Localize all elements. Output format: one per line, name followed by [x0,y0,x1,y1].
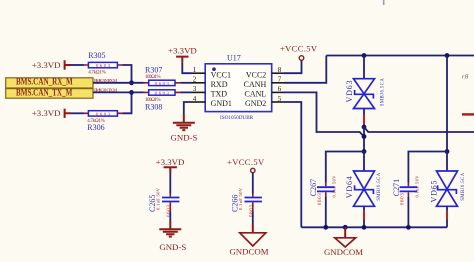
wire C267 branch [326,152,364,183]
svg-text:TXD: TXD [211,90,228,99]
wire R307 to pin2 [180,82,191,84]
wire red below VD64 [363,211,365,220]
svg-text:3: 3 [193,85,197,93]
svg-text:2: 2 [193,76,197,84]
svg-text:VD64: VD64 [345,176,354,198]
svg-text:+3.3VD: +3.3VD [32,60,61,70]
wire TX [93,91,144,93]
svg-text:GND1: GND1 [211,99,232,108]
junction bus/right branch [445,53,450,58]
svg-text:R306: R306 [87,123,104,132]
wire C271 branch [408,152,447,183]
wire GND2: pin5 down to rail [284,102,301,227]
svg-text:0.1uF 50V: 0.1uF 50V [332,175,337,198]
wire CANL to right edge [364,127,474,132]
power +VCC.5V (C266) [227,157,265,173]
capacitor C271 [392,175,420,205]
svg-text:+3.3VD: +3.3VD [168,45,197,55]
junction C271/rail [406,225,411,230]
junction VD63 bottom [362,125,367,130]
wire VD64 to rail [363,220,365,228]
svg-text:R307: R307 [145,66,162,75]
port BMS.CAN_TX_M [6,88,93,98]
svg-text:6: 6 [278,85,282,93]
svg-text:4.7kΩ1%: 4.7kΩ1% [87,119,105,124]
wire C271 to rail [407,197,409,227]
svg-text:VCC1: VCC1 [211,70,231,79]
svg-text:BMS.CAN_TX_M: BMS.CAN_TX_M [16,88,73,98]
wire R305 to RX node [123,65,132,83]
pin 5 GND2 [272,101,284,103]
wire R308 to pin3 [180,91,191,93]
resistor R307 [144,66,181,86]
pin 8 VCC2 [272,72,284,74]
wire +3.3VD to pin1 [182,63,191,73]
svg-text:SMBJ6.5CA: SMBJ6.5CA [461,172,466,201]
wire red below VD65 [446,211,448,220]
svg-text:VD63: VD63 [345,81,354,103]
junction GNDCOM stub [343,225,348,230]
wire RX [93,82,144,84]
pin 7 CANH [272,82,284,84]
svg-text:SMBJ6.5CA: SMBJ6.5CA [377,172,382,201]
svg-text:SMBJ6.5CA: SMBJ6.5CA [380,78,385,107]
svg-text:4: 4 [193,95,197,103]
pin 1 VCC1 [192,72,206,74]
power +3.3VD (R305) [32,60,71,70]
svg-text:GND2: GND2 [245,99,266,108]
resistor R308 [144,90,181,112]
svg-text:CANH: CANH [244,80,267,89]
svg-text:U17: U17 [227,53,241,62]
pin 4 GND1 [192,101,206,103]
ground GNDCOM (rail) [324,227,363,256]
power +3.3VD (C265) [156,157,185,173]
svg-text:4.7kΩ1%: 4.7kΩ1% [88,71,106,76]
wire R305 left [71,64,84,66]
diode VD65 [429,152,466,211]
wire pin8 to +VCC.5V [284,61,302,74]
junction VD65 top [445,149,450,154]
svg-text:VD65: VD65 [429,181,438,203]
wire R306 left [71,112,84,114]
svg-text:R305: R305 [88,51,105,60]
svg-text:GND-S: GND-S [171,133,198,143]
svg-text:GNDCOM: GNDCOM [229,246,268,256]
svg-text:0603: 0603 [318,193,323,206]
wire red below VD63 [363,115,365,126]
pin 6 CANL [272,91,284,93]
ground GND-S (C265) [159,221,186,252]
wire C266 to GNDCOM [252,212,254,225]
svg-text:R308: R308 [145,102,162,111]
svg-text:+3.3VD: +3.3VD [156,157,185,167]
capacitor C267 [309,175,337,205]
junction C267/rail [323,225,328,230]
wire VD63 node down [363,127,365,152]
wire C267 to rail [325,197,327,227]
red dash right edge [462,113,474,115]
svg-text:100Ω1%: 100Ω1% [145,98,161,103]
ground GND-S (U17) [171,114,198,143]
svg-text:+VCC.5V: +VCC.5V [227,157,265,167]
capacitor C265 [148,173,179,217]
svg-text:0.1uF 50V: 0.1uF 50V [156,187,161,210]
svg-text:100Ω1%: 100Ω1% [145,75,161,80]
pin 3 TXD [192,91,206,93]
junction bus/VD63 [362,53,367,58]
wire CANH: pin7 up to bus [284,56,326,83]
junction VD64 top [362,149,367,154]
junction CANL mid [362,134,367,139]
svg-text:1: 1 [193,66,197,74]
diode VD64 [345,152,382,211]
capacitor C266 [231,173,262,217]
svg-text:+3.3VD: +3.3VD [32,108,61,118]
power +3.3VD (U17 pin1) [168,45,197,63]
wire C265 to GND-S [169,212,171,222]
svg-text:0603: 0603 [400,193,405,206]
ground GNDCOM (C266) [229,224,268,256]
wire pin4 to GND-S [184,102,192,114]
wire right branch down [446,56,448,152]
svg-text:8: 8 [278,66,282,74]
svg-text:+VCC.5V: +VCC.5V [280,44,318,54]
junction VD64/rail [362,225,367,230]
svg-text:0603: 0603 [155,90,170,95]
diode VD63 [345,56,386,115]
power +3.3VD (R306) [32,108,71,118]
resistor R305 [84,51,123,76]
svg-text:7: 7 [278,76,282,84]
svg-text:5: 5 [278,95,282,103]
junction RX/R305 [129,80,134,85]
svg-text:GND-S: GND-S [159,242,186,252]
svg-text:0603: 0603 [155,81,170,86]
resistor R306 [84,111,123,132]
svg-text:VCC2: VCC2 [246,70,266,79]
svg-text:CANL: CANL [245,90,267,99]
svg-text:rЯ: rЯ [462,75,469,81]
wire R306 to TX node [123,92,132,113]
junction TX/R306 [129,90,134,95]
svg-text:0.1uF 50V: 0.1uF 50V [238,187,243,210]
svg-text:RXD: RXD [211,80,228,89]
power +VCC.5V (U17 pin8) [280,44,318,61]
wire VD65 to rail [446,220,448,228]
wire CANL: pin6 down and right [284,92,364,136]
svg-text:0603: 0603 [96,63,111,68]
IC U17 [205,53,272,121]
wire GNDCOM rail [301,226,447,228]
svg-text:0.1uF 50V: 0.1uF 50V [414,175,419,198]
wire CANH top bus [326,55,474,57]
svg-text:ISO1050DUBR: ISO1050DUBR [220,115,254,121]
port BMS.CAN_RX_M [6,77,93,88]
svg-text:0603: 0603 [96,111,111,116]
svg-text:BMS.CAN_RX_M: BMS.CAN_RX_M [16,77,73,87]
tick mark top edge [383,0,385,5]
svg-text:GNDCOM: GNDCOM [324,247,363,257]
pin 2 RXD [192,82,206,84]
